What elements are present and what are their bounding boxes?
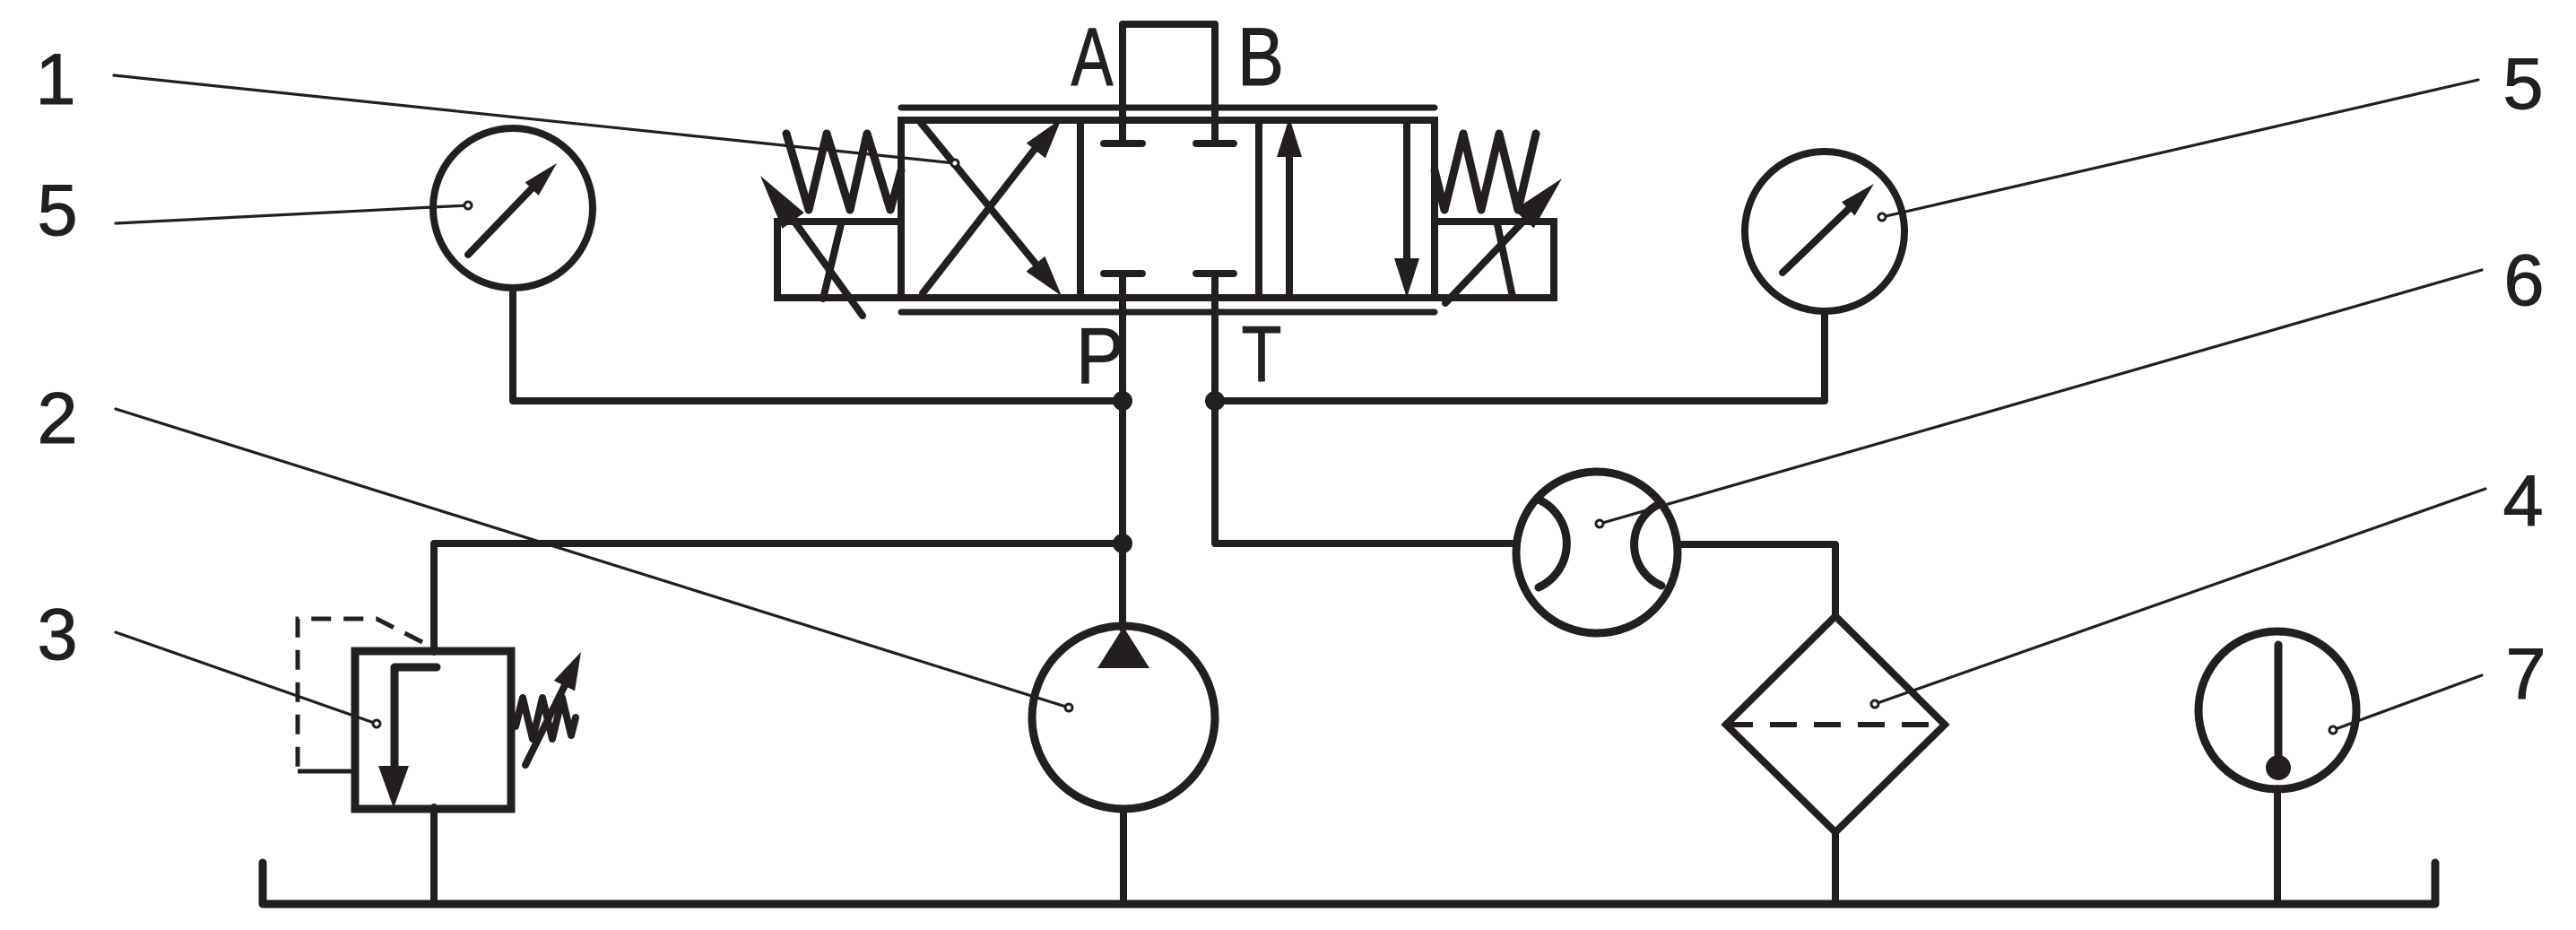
leader to label 7 <box>2333 675 2482 730</box>
proportional arrow right <box>1445 207 1537 303</box>
valve 1 port B riser and blocked symbol <box>1211 24 1219 143</box>
relief valve 3 adjustment arrow <box>525 678 568 765</box>
leader to label 3 <box>116 632 377 724</box>
leader to label 5 right <box>1882 80 2478 217</box>
spring left <box>786 134 901 210</box>
leader to label 5 left <box>116 205 468 223</box>
proportional arrow left <box>780 202 863 316</box>
spring right <box>1435 134 1536 210</box>
leader to label 6 <box>1600 270 2482 524</box>
valve 1 top rail <box>901 105 1435 111</box>
svg-text:2: 2 <box>37 378 77 459</box>
svg-text:A: A <box>1071 12 1114 103</box>
solenoid left (proportional) <box>777 222 901 298</box>
valve 1 straight arrow up <box>1286 151 1293 296</box>
valve 1 crossed arrow to B <box>923 148 1036 293</box>
solenoid right (proportional) <box>1435 222 1554 298</box>
wire: right gauge stem to T junction <box>1215 311 1825 401</box>
valve 1 bottom rail <box>901 309 1435 316</box>
valve 1 blocked port P <box>1104 270 1142 277</box>
thermometer 7 <box>2199 631 2356 789</box>
filter 4 <box>1726 616 1945 832</box>
pressure gauge 5 right <box>1745 152 1904 311</box>
wire: pump to tank <box>1120 809 1127 904</box>
junction P - gauge line <box>1113 391 1132 411</box>
flow meter 6 <box>1516 472 1678 633</box>
svg-text:3: 3 <box>37 595 77 675</box>
valve 1 blocked port T <box>1196 270 1234 277</box>
leader to label 1 <box>114 75 955 163</box>
svg-text:6: 6 <box>2503 240 2544 321</box>
valve 1 left position box <box>901 120 1080 298</box>
wire: filter to tank <box>1832 831 1839 904</box>
svg-text:5: 5 <box>37 170 77 251</box>
relief valve 3 spring <box>516 698 576 739</box>
valve 1 crossed arrow to T <box>921 123 1036 264</box>
svg-text:B: B <box>1237 12 1284 103</box>
valve 1 straight arrow down <box>1403 122 1410 267</box>
wire: T branch to flow meter <box>1215 540 1517 547</box>
svg-text:T: T <box>1242 309 1282 398</box>
svg-text:7: 7 <box>2505 634 2546 715</box>
valve 1 top jumper A-B <box>1123 21 1215 28</box>
wire: left gauge stem to P junction <box>513 288 1123 401</box>
junction P - relief branch <box>1113 534 1132 553</box>
leader to label 2 <box>116 409 1069 708</box>
wire: T line from valve down <box>1211 274 1219 543</box>
relief valve 3 pilot line (dashed) <box>298 619 422 769</box>
svg-text:1: 1 <box>35 39 75 120</box>
wire: P line from valve to pump <box>1119 274 1126 629</box>
wire: flow meter to filter <box>1678 544 1835 619</box>
svg-text:P: P <box>1076 311 1124 400</box>
svg-text:5: 5 <box>2502 44 2543 125</box>
pump 2 <box>1032 626 1215 809</box>
wire: relief valve branch from P line <box>434 543 1123 652</box>
valve 1 center position box <box>1080 120 1259 298</box>
valve 1 port A riser and blocked symbol <box>1119 24 1126 143</box>
relief valve 3 flow arrow <box>395 667 437 769</box>
pressure gauge 5 left <box>433 128 593 288</box>
tank (reservoir) <box>263 863 2435 904</box>
svg-text:4: 4 <box>2502 461 2543 542</box>
leader to label 4 <box>1875 489 2485 704</box>
valve 1 right position box <box>1259 120 1435 298</box>
wire: relief valve to tank <box>430 807 438 904</box>
wire: thermometer to tank <box>2274 788 2281 904</box>
relief valve 3 body <box>355 651 511 809</box>
junction T - gauge line <box>1205 391 1225 411</box>
